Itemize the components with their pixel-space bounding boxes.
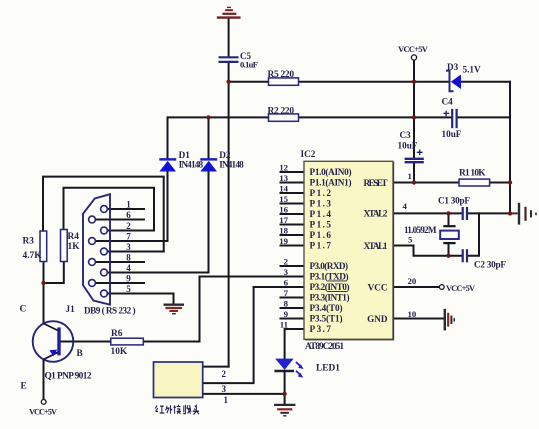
wire DB9 pin9 line xyxy=(95,282,144,284)
svg-text:P1.2: P1.2 xyxy=(310,188,332,198)
svg-text:10uF: 10uF xyxy=(442,129,462,139)
svg-text:C2 30pF: C2 30pF xyxy=(474,260,506,270)
chip left pin numbers xyxy=(279,163,288,330)
junction node R3/R4 xyxy=(41,281,45,285)
wire D2 top to R2 row xyxy=(208,117,210,158)
junction node rail/ground xyxy=(508,211,512,215)
wire chip left stub P3.5 xyxy=(281,318,305,320)
svg-text:C: C xyxy=(20,305,27,315)
wire R6 right to riser xyxy=(144,341,200,343)
收 xyxy=(183,405,191,414)
svg-text:1: 1 xyxy=(408,171,412,181)
svg-text:IN4148: IN4148 xyxy=(179,160,204,170)
svg-text:15: 15 xyxy=(279,194,288,204)
junction node LED/IR gnd xyxy=(282,392,286,396)
ground (top, above C5, inverted) xyxy=(217,7,241,17)
wire IR pin3 riser x=253.6 xyxy=(203,287,254,383)
DB9 connector J1 shell xyxy=(83,194,110,305)
wire crystal bottom stub xyxy=(448,244,450,256)
svg-text:8: 8 xyxy=(284,299,289,309)
wire junction to Q1 collector xyxy=(43,283,45,324)
junction node crystal top xyxy=(446,211,450,215)
capacitor C1 plates xyxy=(463,207,467,220)
svg-text:1: 1 xyxy=(126,200,131,210)
wire R6 riser x=199.5 xyxy=(199,277,201,342)
svg-text:3: 3 xyxy=(126,242,131,252)
外 xyxy=(166,405,173,414)
wire VCC rail y=81.7 (C5 junction to R5 to VCC post to D3 to right corner) xyxy=(229,81,449,83)
DB9 pin circles left column 6..9 xyxy=(89,216,96,286)
capacitor C3 plus sign xyxy=(417,150,423,156)
wire C5 column long vertical to IR pin2 xyxy=(228,82,230,367)
VCC+5V terminal circle top xyxy=(411,55,416,60)
wire D3 cathode to right rail xyxy=(461,81,510,83)
svg-text:6: 6 xyxy=(284,278,289,288)
svg-text:3: 3 xyxy=(284,267,289,277)
svg-text:9: 9 xyxy=(126,274,131,284)
svg-text:P1.4: P1.4 xyxy=(310,209,332,219)
svg-text:10uF: 10uF xyxy=(398,141,418,151)
svg-text:7: 7 xyxy=(126,232,131,242)
svg-text:C1 30pF: C1 30pF xyxy=(438,196,470,206)
svg-text:GND: GND xyxy=(367,314,388,324)
svg-text:10: 10 xyxy=(408,309,417,319)
svg-text:P3.4(T0): P3.4(T0) xyxy=(310,303,343,313)
svg-text:R5 220: R5 220 xyxy=(268,70,295,80)
wire base row Q1 to R6 xyxy=(61,341,111,343)
svg-text:RESET: RESET xyxy=(364,178,388,188)
wire LED cathode down to ground xyxy=(284,372,286,405)
wire chip left stub P1.7 xyxy=(281,245,305,247)
svg-text:12: 12 xyxy=(279,163,288,173)
ground (below LED1) xyxy=(274,405,295,416)
wire C3 bottom to RESET line xyxy=(413,163,415,183)
junction node VCC/C4 row xyxy=(412,115,416,119)
svg-text:13: 13 xyxy=(279,173,288,183)
wire XTAL1 pin5 jog xyxy=(393,246,461,256)
resistor R5 xyxy=(269,78,299,85)
svg-text:P1.1(AIN1): P1.1(AIN1) xyxy=(310,178,352,188)
svg-text:1: 1 xyxy=(224,395,229,405)
svg-text:C3: C3 xyxy=(400,130,412,140)
wire chip pin11 stub and drop to LED xyxy=(285,329,304,358)
svg-text:P3.5(T1): P3.5(T1) xyxy=(310,314,343,324)
wire INT0 row from IR riser to chip pin6 xyxy=(254,286,304,288)
svg-text:D3: D3 xyxy=(447,62,459,72)
wire chip left stub P1.5 xyxy=(281,224,305,226)
wire crystal top stub xyxy=(448,213,450,225)
svg-text:J1: J1 xyxy=(66,304,76,314)
svg-text:4.7K: 4.7K xyxy=(23,251,43,261)
chip internal pin names right xyxy=(364,178,388,324)
wire TXD row from R6 riser to chip pin3 xyxy=(200,276,305,278)
junction node R1 right xyxy=(508,180,512,184)
wire W_A R3-top to DB9 pin3 riser xyxy=(43,177,164,252)
svg-text:3: 3 xyxy=(222,384,227,394)
wire chip left stub P3.0 xyxy=(281,265,305,267)
wire D1 anode drop to pin7 row xyxy=(167,171,169,241)
svg-text:VCC: VCC xyxy=(368,282,388,292)
wire DB9 pin8 line xyxy=(95,261,144,263)
op-amp? no: IC2 AT89C2051 chip body xyxy=(304,161,394,339)
svg-text:VCC+5V: VCC+5V xyxy=(398,44,429,54)
svg-text:P3.2(INT0): P3.2(INT0) xyxy=(310,282,350,292)
svg-text:E: E xyxy=(21,382,27,392)
svg-text:B: B xyxy=(77,349,83,359)
svg-text:7: 7 xyxy=(284,288,289,298)
svg-text:5: 5 xyxy=(408,235,413,245)
svg-text:P3.0(RXD): P3.0(RXD) xyxy=(310,261,349,271)
svg-text:20: 20 xyxy=(408,276,417,286)
wire VCC pin20 xyxy=(393,286,439,288)
svg-text:P1.6: P1.6 xyxy=(310,230,332,240)
svg-text:Q1 PNP 9012: Q1 PNP 9012 xyxy=(45,372,92,382)
svg-text:VCC+5V: VCC+5V xyxy=(29,408,57,417)
ground (DB9 pin5) xyxy=(164,305,185,314)
svg-text:C4: C4 xyxy=(442,97,454,107)
IR receiver label 红外接收头 (drawn strokes) xyxy=(155,405,199,415)
svg-text:R2 220: R2 220 xyxy=(268,107,295,117)
wire R3 bottom to junction xyxy=(43,262,45,284)
wire chip left stub P1.4 xyxy=(281,213,305,215)
svg-text:R3: R3 xyxy=(23,237,35,247)
wire top ground to C5 xyxy=(228,19,230,57)
wire DB9 pin6 line xyxy=(95,219,144,221)
wire chip left stub P1.1 xyxy=(281,182,305,184)
svg-text:6: 6 xyxy=(126,210,131,220)
svg-text:9: 9 xyxy=(284,309,289,319)
wire D2 anode drop to pin4 row xyxy=(208,171,210,272)
ground (GND pin10, rotated) xyxy=(445,309,454,331)
resistor R4 (vertical) xyxy=(61,230,68,262)
wire C5 to VCC node junction xyxy=(228,63,230,82)
svg-text:P3.3(INT1): P3.3(INT1) xyxy=(310,293,350,303)
wire DB9 pin7 line xyxy=(95,240,167,242)
svg-text:D2: D2 xyxy=(219,150,231,160)
svg-text:P3.7: P3.7 xyxy=(310,324,332,334)
crystal Y1 11.0592M xyxy=(440,226,459,243)
svg-text:5.1V: 5.1V xyxy=(463,65,481,75)
wire C2 right to corner up xyxy=(468,213,479,255)
wire IR pin2 to C5 column xyxy=(203,366,229,368)
capacitor C5 plates xyxy=(219,57,239,62)
wire chip left stub P1.6 xyxy=(281,234,305,236)
svg-text:2: 2 xyxy=(284,257,289,267)
svg-text:11.0592M: 11.0592M xyxy=(404,225,437,235)
svg-text:AT89C2051: AT89C2051 xyxy=(305,342,344,352)
wire right rail vertical x=510 xyxy=(509,82,511,214)
wire D1 top to R2 row corner xyxy=(167,117,169,158)
svg-text:R1 10K: R1 10K xyxy=(459,169,486,179)
svg-text:11: 11 xyxy=(280,320,288,330)
svg-text:D1: D1 xyxy=(179,150,191,160)
VCC+5V terminal circle at pin20 xyxy=(439,285,444,290)
wire VCC post vertical xyxy=(413,60,415,82)
wire IR pin1 row to LED column xyxy=(203,393,285,395)
svg-text:16: 16 xyxy=(279,205,288,215)
svg-text:P3.1(TXD): P3.1(TXD) xyxy=(310,272,349,282)
wire DB9 pin5 line to ground drop xyxy=(107,294,173,304)
junction node D2 top xyxy=(206,115,210,119)
wire DB9 pin4 line xyxy=(107,272,208,274)
wire W_B R4-top to DB9 pin2 riser xyxy=(64,188,155,231)
wire GND pin10 xyxy=(393,318,444,320)
头 xyxy=(193,405,199,415)
capacitor C2 plates xyxy=(463,249,467,262)
svg-text:2: 2 xyxy=(222,369,227,379)
svg-text:XTAL1: XTAL1 xyxy=(364,241,388,251)
wire RESET row y=182.5 chip to R1 to rail xyxy=(393,182,510,184)
svg-text:XTAL2: XTAL2 xyxy=(364,209,388,219)
capacitor C4 plus sign xyxy=(443,111,449,117)
resistor R1 xyxy=(459,179,490,186)
resistor R3 (vertical) xyxy=(40,231,47,262)
wire XTAL2 row after C1 to rail xyxy=(468,212,510,214)
svg-text:19: 19 xyxy=(279,236,288,246)
wire C4 right plate to right rail xyxy=(458,116,510,118)
junction node crystal bottom xyxy=(446,254,450,258)
svg-text:P1.3: P1.3 xyxy=(310,199,332,209)
IR receiver module box 红外接收头 xyxy=(154,362,203,398)
svg-text:LED1: LED1 xyxy=(316,364,340,374)
svg-text:10K: 10K xyxy=(111,347,128,357)
svg-text:IC2: IC2 xyxy=(301,149,316,159)
svg-text:DB9 ( RS 232 ): DB9 ( RS 232 ) xyxy=(84,306,136,316)
junction node VCC post xyxy=(412,80,416,84)
wire Q1 emitter to VCC circle xyxy=(43,360,45,400)
zener diode D3 5.1V xyxy=(446,71,461,92)
transistor Q1 PNP 9012 xyxy=(33,321,74,362)
svg-text:1K: 1K xyxy=(68,242,81,252)
junction node RESET/C3 xyxy=(412,180,416,184)
svg-text:R6: R6 xyxy=(111,329,123,339)
svg-text:4: 4 xyxy=(126,263,131,273)
wire R2 row y=117.4 left part from D1 corner to C4 left plate xyxy=(168,116,452,118)
svg-text:P1.5: P1.5 xyxy=(310,220,332,230)
svg-text:8: 8 xyxy=(126,253,131,263)
svg-text:0.1uF: 0.1uF xyxy=(240,60,258,70)
wire chip left stub P1.2 xyxy=(281,192,305,194)
wire chip left stub P1.3 xyxy=(281,203,305,205)
wire DB9 pin1 line xyxy=(107,208,144,210)
capacitor C3 plates (polarized) xyxy=(405,159,424,162)
svg-text:VCC+5V: VCC+5V xyxy=(446,284,475,293)
wire chip left stub P3.3 xyxy=(281,297,305,299)
wire DB9 pin2 line xyxy=(107,230,154,232)
svg-text:R4: R4 xyxy=(68,232,80,242)
红 xyxy=(155,406,164,414)
LED1 xyxy=(274,359,303,378)
wire VCC node down to C3 top xyxy=(413,82,415,158)
svg-text:17: 17 xyxy=(279,215,288,225)
接 xyxy=(174,405,181,414)
wire chip left stub P1.0 xyxy=(281,171,305,173)
wire R4 bottom jog to junction xyxy=(44,262,64,284)
svg-text:2: 2 xyxy=(126,221,131,231)
diode D1 1N4148 xyxy=(159,159,176,171)
ground (right rail, rotated) xyxy=(510,203,536,225)
junction node C5/R5 xyxy=(226,80,230,84)
svg-text:14: 14 xyxy=(279,184,288,194)
svg-text:P1.0(AIN0): P1.0(AIN0) xyxy=(310,167,352,177)
wire DB9 pin3 line xyxy=(107,251,164,253)
svg-text:P1.7: P1.7 xyxy=(310,241,332,251)
resistor R2 xyxy=(269,114,299,121)
VCC+5V terminal circle bottom (Q1 emitter) xyxy=(41,400,46,405)
svg-text:5: 5 xyxy=(126,284,131,294)
capacitor C4 plates (polarized) xyxy=(452,109,456,128)
svg-text:4: 4 xyxy=(403,201,408,211)
svg-text:18: 18 xyxy=(279,226,288,236)
svg-text:IN4148: IN4148 xyxy=(219,160,244,170)
resistor R6 xyxy=(111,338,144,345)
DB9 pin circles right column 1..5 xyxy=(101,206,108,297)
chip right pin numbers xyxy=(403,171,417,319)
DB9 pin numbers xyxy=(126,200,131,295)
chip internal pin names left xyxy=(310,167,352,334)
wire XTAL2 row y=213.4 xyxy=(393,212,461,214)
diode D2 1N4148 xyxy=(200,159,217,171)
wire chip left stub P3.4 xyxy=(281,307,305,309)
